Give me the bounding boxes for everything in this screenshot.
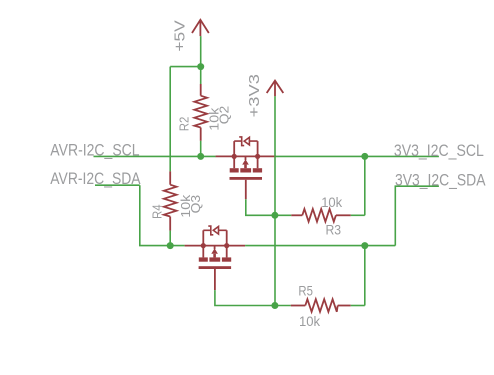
wire R2 bottom to SCL — [200, 141, 202, 157]
svg-text:Q2: Q2 — [217, 106, 232, 125]
wire R4 bottom to SDA — [169, 231, 171, 246]
junction SDA / R4 — [167, 242, 174, 249]
wire SDA to net label — [395, 186, 439, 245]
svg-text:R2: R2 — [177, 117, 192, 132]
Q3 drain/source pins horizontal — [185, 245, 246, 247]
transistor Q3 (N-MOSFET) — [185, 226, 246, 290]
supply +3V3 arrow symbol — [267, 81, 284, 97]
Q3 body diode triangle — [213, 227, 218, 235]
svg-text:10k: 10k — [299, 314, 320, 329]
Q2 channel segments — [230, 168, 239, 172]
junction at +5V node — [197, 63, 204, 70]
wire Q3 gate to 3V3 bottom node — [215, 290, 275, 305]
Q2 left lead vertical — [233, 141, 235, 168]
wire top horizontal to R4 branch — [170, 66, 201, 68]
transistor Q2 (N-MOSFET) — [216, 137, 276, 199]
resistor R4 10k — [164, 171, 177, 230]
Q2 body diode top wire — [234, 140, 257, 142]
svg-text:3V3_I2C_SCL: 3V3_I2C_SCL — [394, 142, 484, 160]
Q3 right lead vertical — [226, 230, 228, 257]
junction SDA right — [361, 242, 368, 249]
svg-text:R3: R3 — [326, 223, 342, 238]
wire R3 to SCL junction — [364, 156, 366, 215]
Q3 gate pin — [214, 269, 216, 290]
Q3 left lead vertical — [202, 230, 204, 257]
svg-text:+3V3: +3V3 — [247, 74, 263, 117]
Q2 right lead vertical — [257, 141, 259, 168]
svg-text:R5: R5 — [298, 283, 313, 298]
wire AVR-I2C_SDA stub — [95, 184, 140, 186]
Q2 gate bar — [230, 177, 263, 180]
Q3 body contact arrow — [214, 246, 216, 250]
Q2 body diode triangle — [244, 137, 249, 145]
Q3 channel segments — [199, 257, 208, 261]
wire R5 to SDA junction — [364, 246, 366, 306]
svg-text:R4: R4 — [150, 204, 165, 219]
wire AVR-I2C_SCL — [94, 155, 216, 157]
junction SCL / R2 — [197, 153, 204, 160]
Q2 body contact arrow — [245, 156, 247, 160]
Q3 pin junction dots — [201, 243, 206, 248]
wire R4 branch vertical — [169, 67, 171, 172]
wire AVR-I2C_SDA vertical — [140, 185, 185, 245]
resistor R3 10k — [275, 209, 365, 222]
Q3 gate bar — [199, 266, 232, 269]
Q2 gate pin — [245, 180, 247, 199]
svg-text:+5V: +5V — [172, 20, 188, 52]
Q2 drain/source pins horizontal — [216, 155, 276, 157]
supply +5V arrow symbol — [192, 20, 209, 36]
svg-text:10k: 10k — [321, 195, 342, 210]
wire Q2 gate to 3V3 node — [246, 199, 275, 215]
junction 3V3 bottom / R5 / Q3 gate — [271, 302, 278, 309]
Q3 body diode top wire — [203, 229, 226, 231]
wire SCL right of Q2 — [276, 155, 439, 157]
resistor R2 10k — [194, 84, 207, 141]
Q3 body diode cathode bar — [208, 226, 213, 235]
junction SCL right — [361, 153, 368, 160]
svg-text:Q3: Q3 — [188, 195, 203, 214]
svg-text:3V3_I2C_SDA: 3V3_I2C_SDA — [395, 171, 486, 189]
wire SDA right of Q3 — [245, 245, 395, 247]
resistor R5 10k — [275, 299, 365, 312]
Q2 body diode cathode bar — [239, 137, 244, 146]
junction 3V3 / R3 / Q2 gate — [271, 212, 278, 219]
Q2 pin junction dots — [232, 154, 237, 159]
wire +3V3 vertical — [274, 96, 276, 305]
wire +5V shaft to junction — [200, 36, 202, 67]
wire junction to R2 top — [200, 67, 202, 84]
